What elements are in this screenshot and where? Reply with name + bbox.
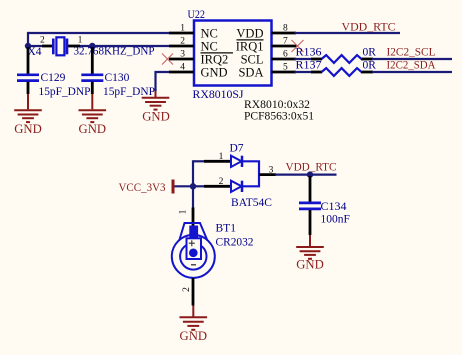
pin 6 SCL — [241, 50, 296, 67]
resistor R136 — [296, 47, 377, 63]
wire R137 to I2C2_SDA — [372, 71, 452, 73]
pin 2 NC — [169, 37, 218, 54]
svg-text:IRQ2: IRQ2 — [201, 53, 229, 67]
svg-text:100nF: 100nF — [321, 214, 350, 226]
svg-text:GND: GND — [14, 122, 42, 136]
wire pin6 to R136 — [295, 58, 313, 60]
svg-text:6: 6 — [283, 50, 288, 60]
ground GND (C134) — [296, 235, 324, 272]
svg-text:C130: C130 — [105, 72, 130, 84]
svg-text:BT1: BT1 — [216, 223, 237, 235]
svg-text:NC: NC — [201, 27, 218, 41]
svg-text:8: 8 — [283, 24, 288, 34]
wire vertical diode branch — [192, 160, 194, 209]
wire to diode 2 anode — [193, 185, 206, 187]
power port VCC_3V3 — [119, 180, 174, 195]
clip filled rect — [189, 226, 198, 240]
node junction C134 — [307, 171, 313, 177]
pin 5 SDA — [238, 63, 296, 80]
node B junction right — [89, 43, 95, 49]
wire pin5 to R137 — [295, 71, 313, 73]
wire top net pin1 — [28, 32, 169, 34]
svg-text:SDA: SDA — [238, 66, 263, 80]
svg-text:15pF_DNP: 15pF_DNP — [103, 86, 155, 98]
svg-text:0R: 0R — [363, 60, 377, 72]
svg-text:5: 5 — [283, 63, 288, 73]
svg-text:IRQ1: IRQ1 — [236, 40, 264, 54]
svg-text:U22: U22 — [188, 7, 206, 21]
no-ERC X pin 3 — [162, 54, 173, 65]
svg-text:VCC_3V3: VCC_3V3 — [119, 180, 166, 194]
wire pin4 to ground — [156, 72, 170, 91]
centre dot — [189, 249, 198, 258]
inner white rect — [187, 238, 202, 259]
svg-text:1: 1 — [78, 36, 83, 46]
op-amp U22 IC box — [188, 7, 272, 101]
battery BT1 — [172, 208, 254, 306]
capacitor C129 — [17, 47, 91, 98]
no-ERC X pin 7 — [292, 40, 304, 52]
diode D7 (BAT54C dual) — [204, 143, 276, 210]
svg-text:C134: C134 — [321, 199, 347, 213]
svg-text:PCF8563:0x51: PCF8563:0x51 — [244, 109, 314, 123]
svg-text:VDD_RTC: VDD_RTC — [342, 20, 396, 34]
wire crystal right to pin2 — [79, 45, 169, 47]
svg-text:7: 7 — [283, 37, 288, 47]
svg-text:VDD_RTC: VDD_RTC — [286, 160, 337, 174]
svg-text:GND: GND — [79, 122, 107, 136]
svg-text:2: 2 — [219, 177, 224, 187]
svg-text:VDD: VDD — [236, 27, 263, 41]
svg-text:BAT54C: BAT54C — [231, 197, 272, 209]
capacitor C134 — [299, 176, 350, 235]
node junction diodes — [190, 183, 196, 189]
svg-text:3: 3 — [269, 166, 274, 176]
ground GND (C130) — [79, 94, 107, 136]
svg-text:I2C2_SCL: I2C2_SCL — [387, 45, 436, 59]
pin 8 VDD — [236, 24, 296, 41]
svg-text:R137: R137 — [296, 60, 322, 72]
svg-text:2: 2 — [180, 37, 185, 47]
plus mark — [189, 240, 195, 246]
ground GND (pin 4) — [142, 91, 170, 124]
svg-text:D7: D7 — [230, 143, 244, 155]
svg-text:3: 3 — [180, 50, 185, 60]
svg-text:1: 1 — [180, 24, 185, 34]
wire VDD_RTC top — [295, 32, 401, 34]
capacitor C130 — [81, 47, 155, 98]
crystal X4 — [28, 36, 155, 59]
ground GND (C129) — [14, 94, 42, 136]
svg-text:GND: GND — [201, 66, 228, 80]
wire VCC_3V3 to junction — [175, 185, 194, 187]
pin 7 IRQ1 (overline) — [236, 37, 297, 54]
svg-text:SCL: SCL — [241, 53, 264, 67]
pin 4 GND — [169, 63, 228, 80]
svg-text:I2C2_SDA: I2C2_SDA — [387, 58, 436, 72]
svg-text:RX8010SJ: RX8010SJ — [193, 87, 244, 101]
svg-text:X4: X4 — [28, 46, 42, 58]
svg-text:GND: GND — [142, 110, 170, 124]
svg-text:1: 1 — [219, 152, 224, 162]
svg-text:GND: GND — [180, 329, 208, 343]
wire to diode 1 anode — [193, 160, 206, 162]
svg-text:2: 2 — [40, 36, 45, 46]
wire crystal left stub — [28, 45, 43, 47]
svg-text:C129: C129 — [41, 72, 66, 84]
pin 1 NC — [169, 24, 218, 41]
wire R136 to I2C2_SCL — [372, 58, 452, 60]
wire D7 out to VDD_RTC — [275, 174, 337, 176]
svg-text:2: 2 — [182, 287, 192, 292]
svg-text:4: 4 — [180, 63, 185, 73]
ground GND (BT1) — [180, 306, 208, 344]
svg-text:0R: 0R — [363, 47, 377, 59]
svg-text:1: 1 — [179, 209, 189, 214]
svg-text:CR2032: CR2032 — [216, 237, 254, 249]
node A junction left — [25, 43, 31, 49]
outer holder outline — [172, 235, 215, 278]
pin 3 IRQ2 (overline) — [169, 50, 233, 67]
resistor R137 — [296, 60, 377, 76]
svg-text:R136: R136 — [296, 47, 322, 59]
minus mark — [191, 264, 196, 266]
svg-text:15pF_DNP: 15pF_DNP — [39, 86, 91, 98]
wire left vertical — [27, 32, 29, 46]
svg-text:GND: GND — [296, 258, 324, 272]
svg-text:32.768KHZ_DNP: 32.768KHZ_DNP — [74, 46, 155, 58]
svg-text:NC: NC — [201, 40, 218, 54]
